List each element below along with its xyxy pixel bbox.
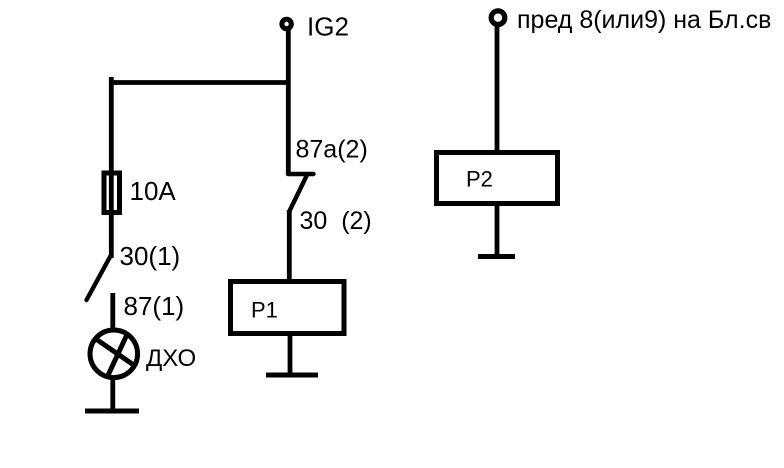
switch S1 blade — [87, 256, 111, 300]
svg-text:IG2: IG2 — [307, 12, 349, 42]
svg-text:87a(2): 87a(2) — [296, 136, 368, 164]
svg-text:ДХО: ДХО — [146, 345, 196, 372]
switch S2 — [288, 174, 314, 212]
svg-text:P2: P2 — [466, 167, 493, 192]
svg-text:87(1): 87(1) — [124, 291, 185, 321]
node пред 8 — [491, 11, 505, 25]
svg-text:10A: 10A — [130, 176, 177, 206]
svg-text:30(1): 30(1) — [120, 241, 181, 271]
wire P2 to ground — [495, 204, 500, 257]
node IG2 — [282, 19, 291, 28]
svg-text:30 (2): 30 (2) — [300, 207, 372, 235]
ground (P2) — [478, 254, 515, 259]
relay P2 — [437, 153, 558, 204]
wire node to relay P2 — [495, 25, 500, 152]
lamp ДХО — [90, 330, 138, 378]
wire left branch vertical (through fuse) — [109, 77, 114, 258]
fuse F1 — [104, 173, 120, 213]
svg-text:P1: P1 — [251, 298, 278, 323]
relay P1 — [231, 282, 345, 334]
ground (P1) — [266, 373, 318, 378]
wire P1 to ground — [288, 334, 293, 375]
wire IG2 down to switch S2 stub — [286, 29, 291, 174]
ground (lamp) — [85, 409, 139, 414]
wire switch S1 to lamp — [110, 293, 115, 330]
wire lamp to ground — [110, 376, 115, 410]
svg-text:пред 8(или9) на Бл.св: пред 8(или9) на Бл.св — [517, 6, 771, 34]
wire horizontal bus — [109, 80, 291, 85]
wire S2 to relay P1 — [287, 210, 292, 281]
